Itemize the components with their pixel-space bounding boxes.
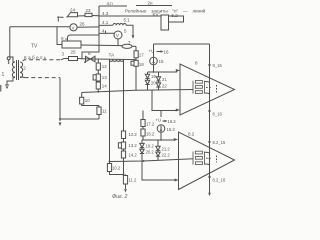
arrow to 16	[157, 49, 170, 54]
vertical node line	[209, 44, 211, 193]
svg-text:13.2: 13.2	[129, 143, 138, 148]
svg-text:22.2: 22.2	[162, 153, 171, 158]
TV primary top lead + terminal	[7, 57, 15, 64]
diode 21.2	[156, 140, 171, 152]
ch2 lower return	[142, 161, 175, 180]
svg-text:24: 24	[70, 8, 76, 13]
svg-text:17.2: 17.2	[146, 122, 155, 127]
node line ch2	[142, 139, 175, 141]
svg-text:23: 23	[86, 8, 92, 13]
svg-text:KV: KV	[153, 12, 159, 17]
wire: cable bottom dashed	[20, 76, 60, 79]
input resistor bank ch2	[193, 151, 217, 164]
svg-text:8.2_15: 8.2_15	[213, 140, 226, 145]
svg-text:25: 25	[71, 50, 77, 55]
resistor 10.2	[107, 164, 123, 175]
diode 19.2	[140, 140, 155, 149]
svg-text:1: 1	[2, 72, 5, 78]
node bus ch1 to amplifier input resistors	[82, 90, 194, 93]
wire link 14.2 bottom to 10.2 top	[109, 159, 194, 176]
wire: left drop to bottom bus	[59, 78, 61, 121]
junction dot node 15.2	[160, 139, 162, 141]
resistor 10	[80, 93, 99, 106]
svg-text:5.2: 5.2	[172, 13, 179, 18]
svg-text:2н: 2н	[148, 1, 154, 6]
wire TA secondary left leg	[109, 60, 111, 164]
resistor chain 12.2 13.2 14.2	[121, 131, 137, 139]
filter 7	[122, 40, 136, 48]
fuse 25	[61, 50, 85, 61]
svg-text:19: 19	[151, 74, 156, 79]
contact 5.2	[169, 13, 184, 22]
bus label 2н	[136, 1, 172, 6]
wire TA secondary right leg	[123, 60, 125, 131]
svg-text:20: 20	[151, 81, 156, 86]
resistor 11	[97, 106, 107, 120]
diode 22	[156, 81, 167, 90]
edge mark	[0, 85, 1, 92]
junction dot bottom bus	[59, 118, 61, 120]
wire column 17/18	[135, 46, 137, 50]
svg-text:10: 10	[85, 98, 91, 103]
svg-text:8.2_16: 8.2_16	[213, 178, 226, 183]
svg-text:19.2: 19.2	[146, 144, 155, 149]
voltmeter 26	[10, 22, 99, 31]
svg-text:8_15: 8_15	[213, 63, 223, 68]
svg-text:22: 22	[162, 84, 167, 89]
resistor 18 with tap	[131, 60, 144, 67]
svg-text:Фиг. 2: Фиг. 2	[112, 194, 127, 200]
connector 23	[78, 8, 100, 17]
switch 9	[57, 27, 99, 48]
input arrow upper ch2	[174, 138, 178, 141]
svg-text:11: 11	[102, 109, 107, 114]
+U terminal ch2	[156, 111, 162, 123]
transformer TV	[2, 44, 39, 81]
svg-text:12.2: 12.2	[129, 132, 138, 137]
resistor 17.2	[141, 111, 155, 127]
svg-text:13: 13	[102, 75, 108, 80]
diode 21	[156, 72, 167, 82]
svg-text:11.2: 11.2	[129, 178, 138, 183]
wire bottom bus	[60, 118, 99, 120]
node 8_15	[208, 63, 222, 68]
input arrow upper ch1	[176, 69, 180, 72]
svg-text:15.2: 15.2	[167, 127, 176, 132]
wire dashed to switch 24	[60, 16, 68, 18]
supply rail to amp node 8_15	[154, 43, 210, 45]
diode 20	[145, 78, 156, 90]
TV primary bottom lead + ground terminal	[5, 77, 15, 89]
ground arrow left bottom	[59, 122, 62, 126]
current transformer TA bowtie	[84, 56, 95, 63]
svg-text:8.2: 8.2	[188, 132, 195, 137]
main line A	[85, 58, 136, 61]
svg-text:21.2: 21.2	[162, 147, 171, 152]
bus line 4.3 / relay KV feed	[99, 11, 161, 16]
wire 18 bottom to node line	[135, 66, 137, 90]
bus line 4	[99, 28, 114, 33]
bus line 4.п	[99, 1, 127, 6]
svg-text:Релейные защиты "п" — линий: Релейные защиты "п" — линий	[125, 8, 206, 14]
+U terminal ch1	[149, 44, 155, 57]
vertical bus	[82, 6, 99, 59]
svg-text:21: 21	[162, 77, 167, 82]
TA secondary winding	[110, 60, 124, 62]
diode 22.2	[156, 150, 171, 160]
svg-text:6: 6	[88, 51, 91, 57]
wire: riser from TV top terminal to measuring line	[9, 27, 11, 57]
svg-text:TV: TV	[31, 44, 38, 50]
svg-text:8_16: 8_16	[213, 112, 223, 117]
switch 24	[67, 8, 78, 18]
resistor 17	[134, 51, 144, 58]
wire down to ch2 supply line	[152, 90, 177, 111]
node 8_16	[208, 110, 222, 117]
input resistor bank ch1	[193, 81, 217, 94]
svg-text:4.3: 4.3	[102, 11, 109, 16]
resistor chain 12 13 14	[96, 59, 107, 70]
node 8.2_16	[208, 176, 226, 183]
junction dot diode bus ch2	[143, 160, 145, 162]
svg-text:20.2: 20.2	[146, 150, 155, 155]
wire between 17-18	[135, 58, 137, 61]
current source 15.2	[157, 125, 175, 140]
svg-text:10.2: 10.2	[112, 166, 121, 171]
terminal for relay line	[57, 16, 59, 21]
amplifier triangle 8	[180, 61, 235, 116]
wire from 9 to filter 7	[81, 44, 122, 47]
svg-text:18: 18	[139, 62, 145, 67]
junction dot node 15	[153, 71, 155, 73]
relay coil KV	[153, 12, 169, 30]
svg-text:17: 17	[139, 53, 145, 58]
node 8.2_15	[208, 140, 226, 145]
svg-text:14.2: 14.2	[129, 153, 138, 158]
svg-text:4.1: 4.1	[102, 20, 109, 25]
arrow to 16.2	[163, 119, 177, 124]
resistor 11.2	[123, 175, 137, 193]
svg-text:26: 26	[80, 22, 86, 27]
bus line 4.1	[99, 20, 113, 25]
svg-text:V: V	[116, 33, 119, 38]
voltmeter 5	[114, 29, 127, 46]
svg-text:15: 15	[159, 59, 165, 64]
svg-text:TA: TA	[109, 53, 116, 59]
svg-text:18.2: 18.2	[146, 132, 155, 137]
svg-text:14: 14	[102, 84, 108, 89]
svg-text:16.2: 16.2	[168, 119, 177, 124]
svg-text:4.п: 4.п	[107, 1, 114, 6]
current source 15	[150, 57, 164, 65]
input arrow lower ch1	[176, 109, 180, 112]
svg-text:5.1: 5.1	[124, 18, 131, 23]
svg-text:+U: +U	[156, 118, 161, 123]
diode 19	[145, 72, 156, 79]
svg-text:12: 12	[102, 64, 108, 69]
svg-text:Кабель: Кабель	[24, 55, 48, 60]
svg-text:V: V	[72, 25, 75, 30]
svg-text:16: 16	[164, 49, 170, 54]
resistor 18.2	[141, 127, 155, 141]
amplifier triangle 8.2	[179, 132, 235, 190]
junction dot chain bottom	[97, 91, 99, 93]
wire 15 bottom node	[148, 65, 178, 72]
wire: cable top dashed	[23, 60, 61, 61]
diode 20.2	[140, 148, 155, 161]
inductor 5.1	[113, 18, 134, 39]
